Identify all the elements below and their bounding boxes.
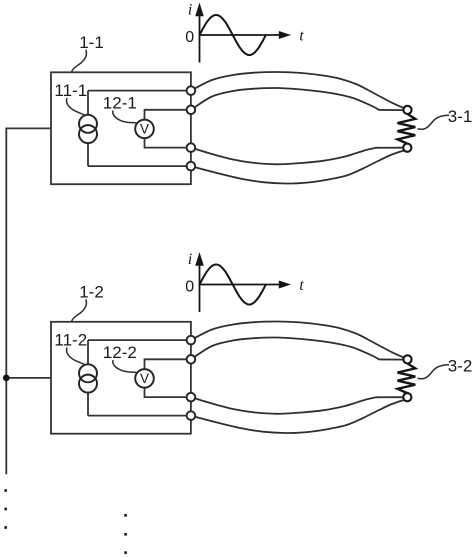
- svg-text:12-2: 12-2: [103, 343, 137, 362]
- svg-text:3-1: 3-1: [448, 107, 473, 126]
- svg-text:V: V: [140, 122, 149, 137]
- svg-text:11-2: 11-2: [54, 331, 87, 350]
- svg-text:i: i: [188, 251, 192, 268]
- svg-text:11-1: 11-1: [54, 81, 87, 100]
- svg-text:1-1: 1-1: [79, 33, 104, 52]
- svg-text:t: t: [299, 277, 304, 294]
- svg-text:i: i: [188, 1, 192, 18]
- svg-text:V: V: [140, 371, 149, 386]
- svg-text:0: 0: [185, 279, 194, 296]
- svg-text:12-1: 12-1: [103, 93, 137, 112]
- svg-text:t: t: [299, 27, 304, 44]
- svg-text:1-2: 1-2: [79, 283, 104, 302]
- svg-text:3-2: 3-2: [448, 357, 473, 376]
- svg-text:0: 0: [185, 29, 194, 46]
